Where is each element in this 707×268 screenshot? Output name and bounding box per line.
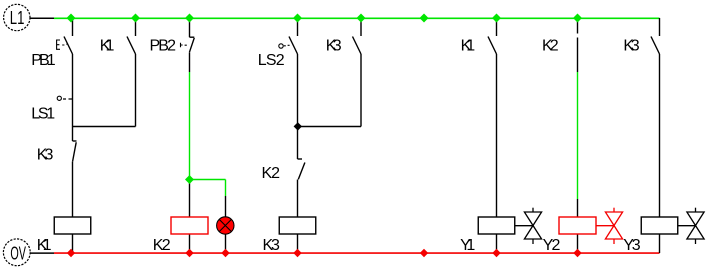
svg-text:K3: K3 bbox=[623, 38, 639, 55]
svg-text:LS1: LS1 bbox=[31, 106, 55, 123]
svg-text:Y2: Y2 bbox=[543, 237, 561, 254]
svg-text:LS2: LS2 bbox=[258, 52, 285, 69]
svg-text:K1: K1 bbox=[100, 38, 115, 55]
svg-text:Y3: Y3 bbox=[623, 237, 640, 254]
svg-text:L1: L1 bbox=[10, 8, 25, 28]
svg-text:OV: OV bbox=[10, 243, 26, 263]
svg-text:K3: K3 bbox=[263, 237, 280, 254]
svg-text:PB1: PB1 bbox=[31, 52, 55, 69]
svg-text:K2: K2 bbox=[262, 165, 281, 182]
svg-text:Y1: Y1 bbox=[460, 237, 475, 254]
svg-text:K3: K3 bbox=[37, 146, 54, 163]
svg-text:K2: K2 bbox=[542, 38, 559, 55]
svg-text:K1: K1 bbox=[37, 237, 52, 254]
svg-text:K1: K1 bbox=[461, 38, 476, 55]
svg-text:K3: K3 bbox=[326, 38, 342, 55]
svg-text:K2: K2 bbox=[153, 237, 171, 254]
svg-text:PB2: PB2 bbox=[150, 38, 177, 55]
